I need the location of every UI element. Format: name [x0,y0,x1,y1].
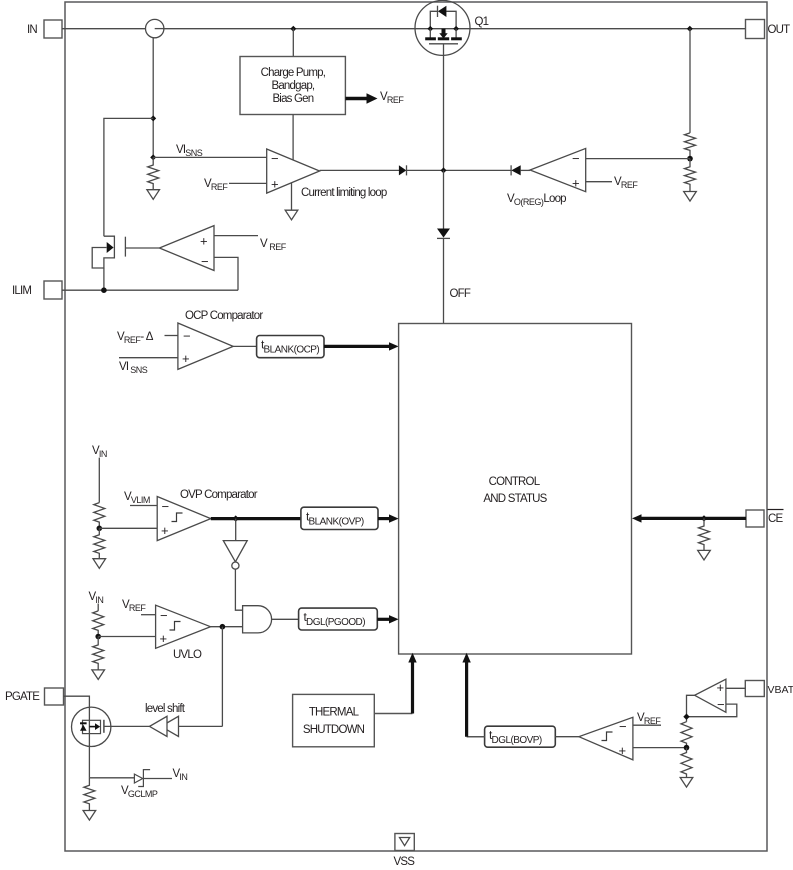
ground UVLO divider [92,670,105,680]
arrow OCP to control [324,345,391,348]
node CE [701,515,707,521]
svg-text:Bias Gen: Bias Gen [272,93,313,105]
wire buffer out [687,695,695,721]
resistor VBAT upper [681,722,692,748]
svg-text:OUT: OUT [768,24,791,36]
comparator OVP [157,497,211,541]
current sense tap inner lead [155,28,164,30]
arrow thermal to control [411,661,414,714]
block tBLANK(OVP) [301,507,378,529]
wire VIN uvlo down [97,604,99,611]
node UVLO out [220,624,226,630]
svg-text:ILIM: ILIM [12,285,31,297]
resistor OUT upper [685,133,696,159]
wire divider to VOREG amp [586,158,690,160]
resistor UVLO lower [93,637,104,670]
svg-text:VBAT: VBAT [768,684,793,696]
svg-text:PGATE: PGATE [5,691,40,703]
wire VOREG apex to diode [521,169,530,171]
ground OVP divider [93,559,106,569]
wire buffer feedback [687,704,737,717]
pin ILIM [44,281,62,299]
wire UVLO plus input [98,636,155,638]
diode CL out [399,165,406,175]
wire OFF down [443,238,445,323]
wire charge pump up [292,29,294,57]
svg-text:−: − [717,697,725,712]
svg-text:+: + [200,234,208,249]
wire fet source to ILIM [103,268,105,290]
node UVLO divider [95,634,101,640]
wire OCP plus input [119,357,178,359]
svg-text:−: − [572,151,580,166]
svg-text:OCP Comparator: OCP Comparator [185,310,263,322]
wire gate node to OFF diode [443,170,445,228]
wire BOVP box left [467,736,485,738]
svg-text:−: − [201,254,209,269]
wire zener to VIN [143,778,172,780]
svg-text:UVLO: UVLO [173,649,202,661]
wire inverter to AND [235,569,242,610]
node VISNS [150,154,156,160]
diode OFF [437,229,450,238]
svg-text:+: + [160,631,168,646]
diode zener VGCLMP [134,774,142,783]
wire ILIM amp feedback [214,257,238,290]
wire UVLO to level shift [221,627,223,727]
transistor ILIM sense fet [92,236,159,268]
wire OUT divider down [689,29,691,133]
block charge pump [240,57,345,115]
node sense branch [150,115,156,121]
wire OCP minus input [165,335,178,337]
node OUT divider [687,26,693,32]
wire VIN down [98,458,100,503]
ground PGATE [83,811,96,821]
node gate [441,167,447,173]
wire BOVP comparator out [555,736,579,738]
wire UVLO out [211,626,243,628]
pin CE [746,510,764,527]
svg-text:OVP Comparator: OVP Comparator [180,489,258,501]
diode VOREG out [510,165,512,175]
arrow OVP to control [378,517,391,520]
block tBLANK(OCP) [257,336,324,358]
wire VREF to plus [229,182,267,184]
block control and status [399,324,632,655]
pin OUT [746,20,765,39]
ground VBAT divider [680,778,693,788]
pin IN [44,20,62,38]
wire ILIM amp plus input [214,235,258,237]
pin VSS [395,834,414,851]
comparator OCP [178,323,233,369]
wire inverter input [235,519,237,541]
resistor UVLO upper [93,611,104,637]
resistor VBAT lower [681,748,692,778]
block tDGL(BOVP) [485,726,556,747]
gate AND pgood [243,606,272,633]
buffer level shift [161,716,179,736]
svg-text:−: − [271,151,279,166]
wire BOVP plus input [633,747,687,749]
wire UVLO minus input [141,614,156,616]
block thermal shutdown [293,694,375,746]
svg-text:−: − [183,329,191,344]
transistor Q1 [415,0,470,55]
comparator BOVP [579,717,633,760]
wire fet gate to level shift [104,725,150,727]
ground CE [698,550,711,560]
wire IN to OUT rail [62,28,746,30]
svg-text:SHUTDOWN: SHUTDOWN [303,724,365,736]
wire OVP out thick [211,517,301,520]
transistor PGATE pulldown fet [72,707,111,746]
svg-text:IN: IN [27,24,37,36]
node ILIM [101,287,107,293]
wire CE thick [639,517,746,520]
wire charge pump to amp bias [292,115,294,161]
arrow VREF out [345,97,368,101]
inverter OVP [223,541,247,562]
wire VISNS to amp [153,156,267,158]
pin PGATE [45,688,64,705]
resistor OVP upper [94,503,105,529]
wire VREF to VOREG plus [586,181,612,183]
ground sense resistor [147,190,160,200]
svg-text:−: − [619,719,627,734]
arrow BOVP to control [465,661,468,737]
svg-text:+: + [619,743,627,758]
svg-text:+: + [271,177,279,192]
wire sense node down [152,38,154,158]
node OVP out [233,515,239,521]
op-amp VOREG loop [530,148,586,191]
wire OVP minus input [130,505,157,507]
wire AND out [272,618,299,620]
wire to zener [89,777,134,779]
wire level shift input [179,725,223,727]
wire BOVP minus input [633,724,661,726]
svg-text:OFF: OFF [450,288,471,300]
svg-text:CONTROL: CONTROL [489,476,541,488]
svg-text:+: + [182,351,190,366]
op-amp ILIM [159,226,214,271]
pin VBAT [745,681,764,697]
svg-text:THERMAL: THERMAL [309,706,360,718]
svg-text:Bandgap,: Bandgap, [271,80,314,92]
wire OCP out [233,345,256,347]
svg-text:−: − [162,499,170,514]
ground OUT divider [684,192,697,202]
node OUT divider mid [687,156,693,162]
wire CL amp out [320,169,399,171]
resistor OVP lower [94,528,105,558]
wire PGATE to fet [64,696,90,707]
block tDGL(PGOOD) [299,608,378,630]
ground current limit amp [291,183,293,210]
node VBAT divider mid [684,745,690,751]
svg-text:level shift: level shift [145,703,186,715]
wire thermal out [374,713,412,715]
svg-text:+: + [161,523,169,538]
wire ILIM [62,289,238,291]
arrow PGOOD to control [377,618,390,621]
resistor OUT lower [685,159,696,192]
wire fet drain down [88,746,90,777]
wire VBAT to buffer plus [726,687,745,689]
wire diode to gate node [407,169,512,171]
svg-text:+: + [717,680,725,695]
op-amp VBAT buffer [695,679,726,712]
resistor PGATE [84,778,95,811]
svg-text:Charge Pump,: Charge Pump, [261,67,326,79]
node OVP divider [97,526,103,532]
resistor sense [148,157,159,189]
wire branch to ILIM fet [104,118,153,236]
op-amp current limiting loop [267,149,320,193]
svg-text:Q1: Q1 [475,16,489,28]
current sense tap circle [146,19,164,37]
svg-text:−: − [160,608,168,623]
resistor CE [699,518,710,550]
svg-text:Current limiting loop: Current limiting loop [301,187,387,199]
svg-text:CE: CE [768,513,784,525]
svg-text:VSS: VSS [394,856,416,868]
node VBAT divider top [683,714,689,720]
wire OVP plus input [99,527,157,529]
wire Q1 gate down [443,44,445,170]
svg-text:AND STATUS: AND STATUS [483,493,547,505]
svg-text:+: + [572,176,580,191]
comparator UVLO [156,605,211,648]
node charge pump tap [290,26,296,32]
